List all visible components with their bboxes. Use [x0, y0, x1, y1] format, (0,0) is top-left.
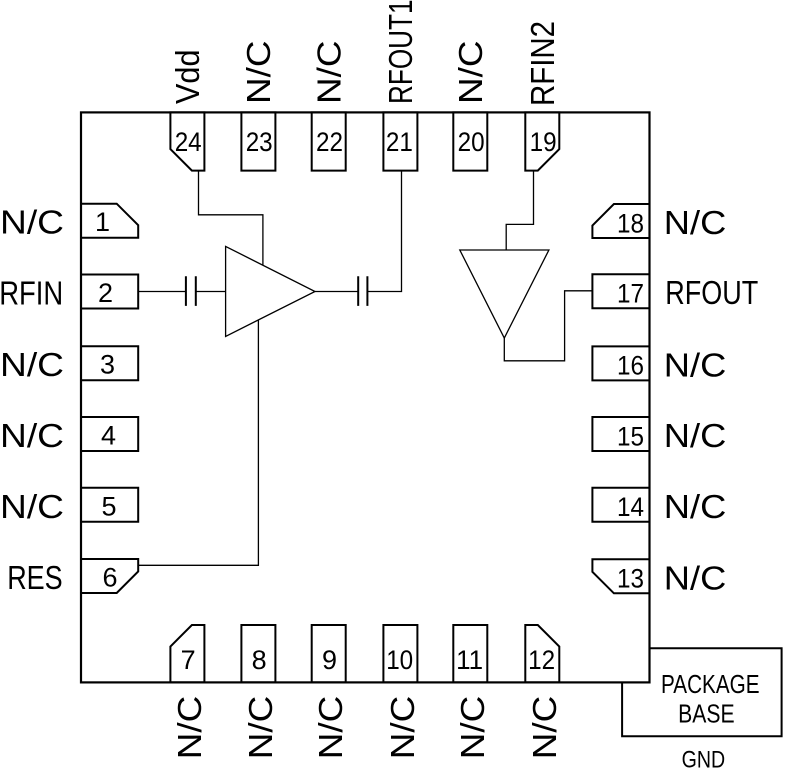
svg-text:4: 4: [101, 421, 116, 451]
svg-text:16: 16: [617, 351, 644, 381]
svg-text:15: 15: [617, 421, 644, 451]
svg-text:N/C: N/C: [664, 559, 727, 596]
svg-text:RFIN2: RFIN2: [524, 21, 561, 106]
svg-text:9: 9: [322, 645, 337, 675]
svg-text:N/C: N/C: [526, 696, 563, 760]
svg-text:RES: RES: [7, 559, 63, 596]
svg-text:8: 8: [252, 645, 267, 675]
svg-text:N/C: N/C: [240, 41, 277, 105]
svg-text:BASE: BASE: [678, 698, 735, 728]
svg-text:N/C: N/C: [664, 488, 727, 525]
svg-text:22: 22: [316, 127, 343, 157]
svg-text:13: 13: [617, 564, 644, 594]
svg-text:20: 20: [458, 127, 485, 157]
svg-text:N/C: N/C: [0, 417, 64, 454]
svg-text:2: 2: [98, 278, 113, 308]
svg-text:N/C: N/C: [454, 696, 491, 760]
svg-text:N/C: N/C: [664, 417, 727, 454]
svg-text:N/C: N/C: [171, 696, 208, 760]
svg-text:GND: GND: [682, 746, 726, 772]
svg-text:N/C: N/C: [664, 204, 727, 241]
svg-text:N/C: N/C: [0, 204, 64, 241]
svg-text:14: 14: [617, 492, 644, 522]
svg-text:N/C: N/C: [242, 696, 279, 760]
svg-text:12: 12: [528, 645, 555, 675]
svg-text:19: 19: [530, 127, 557, 157]
svg-text:1: 1: [95, 207, 110, 237]
svg-text:Vdd: Vdd: [169, 50, 206, 105]
svg-text:10: 10: [386, 645, 413, 675]
svg-text:RFIN: RFIN: [0, 275, 63, 312]
svg-text:17: 17: [617, 279, 644, 309]
svg-text:18: 18: [617, 208, 644, 238]
svg-text:23: 23: [246, 127, 273, 157]
svg-text:6: 6: [102, 563, 117, 593]
svg-text:N/C: N/C: [310, 41, 347, 105]
svg-text:5: 5: [101, 491, 116, 521]
svg-text:11: 11: [456, 645, 483, 675]
svg-text:24: 24: [175, 127, 202, 157]
svg-text:N/C: N/C: [0, 488, 64, 525]
svg-text:RFOUT1: RFOUT1: [382, 0, 419, 104]
svg-text:N/C: N/C: [452, 41, 489, 105]
svg-text:N/C: N/C: [384, 696, 421, 760]
svg-text:3: 3: [100, 350, 115, 380]
svg-text:21: 21: [386, 127, 413, 157]
svg-text:PACKAGE: PACKAGE: [661, 669, 760, 699]
svg-text:N/C: N/C: [312, 696, 349, 760]
svg-text:7: 7: [181, 645, 196, 675]
svg-text:N/C: N/C: [664, 346, 727, 383]
svg-text:N/C: N/C: [0, 346, 64, 383]
svg-text:RFOUT: RFOUT: [665, 274, 758, 311]
